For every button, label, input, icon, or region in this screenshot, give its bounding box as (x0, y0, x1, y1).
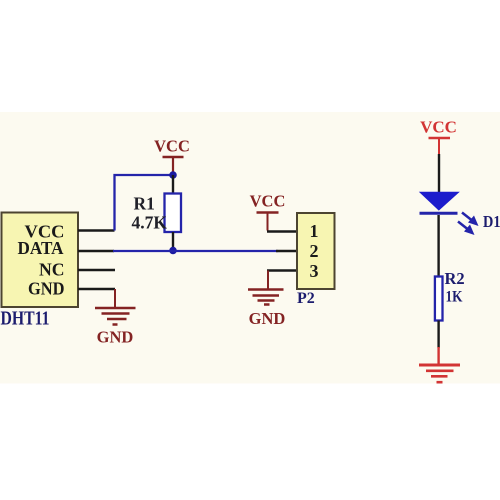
svg-text:NC: NC (39, 260, 65, 280)
pin NC of DHT11 (78, 269, 115, 271)
pin 1 of P2 (267, 230, 297, 232)
ground symbol (LED branch) (419, 365, 460, 382)
LED light arrow 1 (462, 213, 479, 227)
svg-text:1K: 1K (446, 289, 463, 306)
wire VCC to LED anode (438, 154, 440, 193)
wire DATA net (DHT11 to P2 pin 2) (113, 250, 278, 252)
svg-text:GND: GND (28, 279, 65, 299)
svg-text:D1: D1 (483, 212, 500, 231)
resistor R2 body (435, 277, 443, 321)
svg-text:R2: R2 (445, 269, 465, 288)
ground wire (red segment) (437, 347, 439, 365)
svg-text:4.7K: 4.7K (132, 213, 168, 233)
ground symbol (DHT11 GND) (95, 308, 136, 325)
svg-text:GND: GND (249, 309, 286, 328)
svg-text:GND: GND (97, 328, 134, 347)
power symbol VCC (above P2) (250, 192, 286, 231)
connector P2 body (297, 213, 335, 289)
wire LED cathode to R2 (437, 215, 439, 277)
wire R1 bottom to DATA junction (172, 232, 174, 251)
pin DATA of DHT11 (78, 250, 114, 252)
ground wire from P2 pin 3 (267, 271, 269, 290)
svg-text:DATA: DATA (18, 238, 64, 258)
svg-text:VCC: VCC (420, 118, 457, 137)
junction node (DATA / R1 bottom) (169, 247, 177, 255)
LED D1 triangle (419, 192, 460, 211)
ground symbol (P2 GND) (248, 290, 284, 305)
wire R2 bottom to ground (437, 321, 439, 349)
power symbol VCC (above R1) (154, 137, 190, 176)
power symbol VCC (LED branch) (420, 118, 457, 156)
resistor R1 body (165, 194, 182, 233)
svg-text:DHT11: DHT11 (1, 309, 50, 330)
pin VCC of DHT11 (78, 229, 115, 231)
LED light arrow 2 (458, 222, 475, 236)
svg-text:3: 3 (310, 261, 319, 281)
LED D1 cathode bar (420, 212, 458, 215)
svg-text:P2: P2 (297, 290, 315, 307)
svg-text:VCC: VCC (154, 137, 190, 156)
svg-text:1: 1 (310, 221, 319, 241)
wire junction to R1 top (172, 175, 174, 194)
pin 3 of P2 (267, 269, 297, 271)
svg-text:R1: R1 (134, 194, 155, 214)
svg-text:2: 2 (310, 241, 319, 261)
junction node (R1 top / VCC) (169, 171, 177, 179)
svg-text:VCC: VCC (250, 192, 286, 211)
ground wire from DHT11 GND pin (114, 289, 116, 308)
wire VCC pin to R1 top (115, 175, 174, 231)
pin 2 of P2 (276, 250, 297, 252)
component DHT11 body (2, 213, 79, 308)
pin GND of DHT11 (78, 288, 115, 290)
